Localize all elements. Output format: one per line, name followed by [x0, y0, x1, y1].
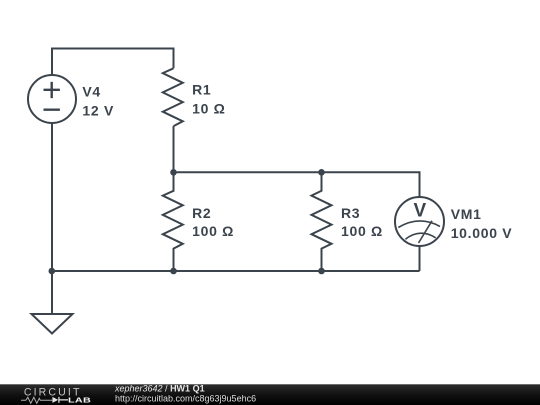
wire: V4 bottom lead	[51, 123, 53, 271]
resistor R1	[163, 68, 183, 126]
V4 plus sign	[44, 82, 60, 98]
svg-text:LAB: LAB	[68, 396, 91, 404]
wire bottom rail	[52, 270, 420, 272]
svg-text:100 Ω: 100 Ω	[341, 223, 383, 239]
node junction dot R1/R2/middle	[170, 169, 177, 176]
voltmeter meter upper arc	[398, 221, 440, 228]
wire top: V4 to R1	[52, 49, 174, 76]
svg-text:12 V: 12 V	[82, 103, 114, 119]
voltmeter needle	[419, 221, 433, 243]
svg-text:V4: V4	[82, 84, 101, 100]
resistor R2	[163, 172, 183, 271]
ground symbol	[32, 314, 73, 334]
svg-text:10.000 V: 10.000 V	[451, 225, 513, 241]
resistor R3	[312, 172, 332, 271]
voltmeter meter lower arc	[405, 233, 435, 239]
svg-text:V: V	[414, 201, 427, 222]
svg-text:10 Ω: 10 Ω	[192, 101, 226, 117]
svg-text:100 Ω: 100 Ω	[192, 223, 234, 239]
CircuitLab logo squiggle resistor	[21, 397, 52, 403]
voltmeter VM1 circle	[395, 197, 444, 246]
svg-text:R2: R2	[192, 205, 211, 221]
svg-text:http://circuitlab.com/c8g63j9u: http://circuitlab.com/c8g63j9u5ehc6	[115, 393, 256, 403]
wire: ground lead	[51, 271, 53, 314]
CircuitLab logo diode	[52, 397, 58, 403]
node junction dot R3 bottom	[318, 268, 325, 275]
svg-text:R3: R3	[341, 205, 360, 221]
node junction dot R3/middle	[318, 169, 325, 176]
wire middle: node to voltmeter	[174, 172, 420, 197]
node junction dot ground	[49, 268, 56, 275]
svg-text:R1: R1	[192, 82, 211, 98]
wire: voltmeter bottom lead	[419, 246, 421, 271]
voltage source V4	[28, 75, 76, 123]
svg-text:xepher3642 / HW1 Q1: xepher3642 / HW1 Q1	[114, 383, 205, 393]
wire: R1 bottom lead to node	[173, 126, 175, 172]
V4 minus sign	[44, 108, 60, 110]
node junction dot R2 bottom	[170, 268, 177, 275]
svg-text:VM1: VM1	[451, 206, 482, 222]
